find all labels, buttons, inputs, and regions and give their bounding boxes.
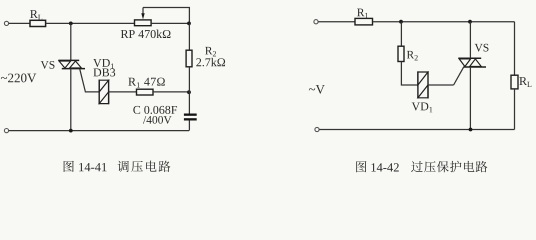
label R2 [205,47,212,55]
wire [401,62,418,86]
label R1 47 [128,78,136,86]
caption right title [411,161,423,172]
resistor RL (load) [30,20,46,26]
wire [318,21,355,23]
wire [70,69,72,131]
wire [46,22,135,24]
node A junction [69,22,73,26]
label VD1 right [412,102,420,110]
wire [9,22,30,24]
resistor R1 right [355,18,373,25]
triac VS right triangle [70,61,82,68]
label VS right [475,44,483,52]
label 2.7k value [196,58,201,66]
wire [70,23,72,60]
wire [151,22,189,24]
wire [188,67,190,114]
triac VSb top bar [458,57,481,59]
diac VD1b left bar [417,71,419,98]
triac VS top bar [58,59,79,61]
diac VD1 left bar [98,80,100,105]
label ~220V [1,77,7,79]
triac VSb bottom bar [463,66,486,68]
diac VD1 right bar [108,80,110,105]
triac VS bottom bar [62,68,85,70]
wire [469,22,471,59]
node C junction [187,90,191,94]
label DB3 [93,68,101,76]
wire bottom rail right [319,129,514,131]
node F junction [468,20,472,24]
diac VD1 body [99,80,108,103]
wire right rail lower [514,89,516,130]
label RL [30,10,38,18]
resistor R2 right [398,46,404,61]
label RP 470k [121,30,129,38]
wire [400,22,402,47]
triac VSb gate wire [454,67,464,85]
diac VD1b body [418,72,428,98]
terminal left-top [4,21,8,25]
wire [153,91,189,93]
resistor RL right [511,75,518,89]
wire [109,91,137,93]
wire [188,121,190,131]
resistor R1 47 [137,89,154,95]
label C value [133,106,140,114]
node B junction [187,22,191,26]
resistor R2 2.7k [186,50,192,67]
wire right rail upper [514,22,516,75]
capacitor C top plate [184,114,197,116]
wire [428,84,454,86]
caption fig number 14-42 [356,161,366,172]
triac VSb right triangle [470,59,482,67]
terminal right-top [314,20,318,24]
wire wiper to node B [143,8,189,24]
label VD1 [93,59,101,67]
terminal left-bottom [4,129,8,133]
node G junction [469,128,473,132]
triac VSb left triangle [459,59,470,67]
terminal right-bottom [315,127,319,131]
caption fig number 14-41 [64,161,74,172]
triac VS gate wire [80,69,99,92]
label ~V [309,88,315,90]
wire top rail [373,21,515,23]
triac VS left triangle [59,61,71,68]
caption left title [118,161,129,172]
label VS [41,61,49,69]
potentiometer RP body [135,20,152,26]
diac VD1b right bar [427,71,429,98]
wire [188,23,190,50]
wire [469,67,471,130]
wire bottom rail [9,130,189,132]
label R1 right [357,9,364,17]
label C voltage [143,116,146,124]
node E junction [399,20,403,24]
potentiometer RP wiper arrow [142,8,144,15]
label R2 right [407,51,414,59]
label RL right [519,77,527,85]
capacitor C bottom plate [184,118,197,120]
node D junction [69,129,73,133]
